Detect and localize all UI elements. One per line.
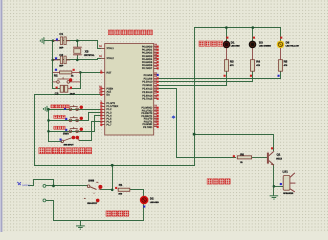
state squares D1 D3 D6 anode red — [226, 37, 228, 39]
wire key row3 — [49, 131, 78, 133]
svg-text:P0.7/AD7: P0.7/AD7 — [142, 67, 153, 70]
svg-text:C2: C2 — [59, 53, 63, 57]
svg-text:C1: C1 — [59, 32, 63, 36]
state square C1 left blue — [56, 38, 58, 40]
key label text row3 复位键 — [54, 126, 65, 129]
wire ground to C1 junction — [45, 40, 53, 42]
state square R3 bottom red — [224, 75, 226, 77]
state square key row3 blue — [65, 129, 67, 131]
svg-text:LED-RED: LED-RED — [231, 44, 240, 47]
wire reset section right vertical — [80, 73, 82, 89]
wire bottom rail — [54, 220, 144, 222]
svg-text:R2: R2 — [54, 73, 58, 77]
switch SW8 — [84, 182, 101, 198]
blue diamond marker — [171, 115, 175, 118]
state square SW0 blue — [60, 139, 62, 141]
wire key row2 staircase to P1.3 — [78, 113, 101, 121]
svg-text:LS1: LS1 — [283, 169, 289, 173]
svg-text:R5: R5 — [284, 60, 288, 64]
junction SW8 output R1 — [111, 189, 114, 192]
wire key row2 — [49, 120, 78, 122]
window left edge bar — [0, 0, 2, 232]
junction crystal bottom — [76, 59, 79, 62]
svg-text:R1: R1 — [119, 183, 123, 187]
svg-text:10uF: 10uF — [70, 93, 76, 96]
svg-text:9013: 9013 — [276, 158, 282, 161]
key button row3 — [69, 127, 78, 133]
wire Q1 emitter down — [273, 165, 275, 196]
label text 电源模块 — [106, 211, 129, 216]
wire R4 bottom to P2.2 — [159, 72, 253, 82]
svg-text:XTAL2: XTAL2 — [107, 57, 115, 60]
svg-text:30P: 30P — [59, 47, 64, 50]
wire C3 right lead to vertical — [72, 88, 81, 90]
chip left pin state squares (red) — [100, 71, 102, 126]
battery plus terminal — [43, 185, 46, 188]
wire XTAL1 drop — [98, 41, 101, 49]
SW0 red actuators — [72, 136, 76, 140]
wire crystal top lead vertical — [77, 41, 79, 47]
junction emitter speaker tap — [273, 185, 276, 188]
title text 单片机最小系统 — [108, 30, 152, 35]
wire P2.4 to alarm base line — [159, 89, 177, 158]
state square C3 right red — [70, 87, 72, 89]
junction power net drop x112 — [111, 164, 114, 167]
capacitor C3 — [60, 85, 72, 92]
ground (key rail, rotated left-pointing) — [43, 106, 48, 112]
junction key rail row3 — [47, 130, 50, 133]
wire crystal bottom lead vertical — [77, 56, 79, 60]
SW8 red actuator top — [98, 185, 102, 189]
svg-text:CRYSTAL: CRYSTAL — [84, 54, 95, 57]
wire SW0 output staircase to P1.6 — [80, 122, 101, 141]
capacitor C2 — [53, 56, 70, 64]
wire second rail C2 to XTAL2 corner — [53, 59, 98, 61]
capacitor C1 — [53, 37, 70, 45]
wire R3 bottom to P2.3 — [159, 72, 227, 86]
speaker LS1 — [283, 173, 295, 192]
junction key rail row1 — [47, 108, 50, 111]
wire LED top rail — [195, 27, 281, 29]
svg-text:D6: D6 — [286, 40, 290, 44]
svg-text:SW-SPDT: SW-SPDT — [64, 144, 75, 147]
state square key row2 blue — [65, 118, 67, 120]
svg-text:R6: R6 — [240, 152, 244, 156]
label text 红外热释电传感器 — [39, 148, 92, 154]
LED D3 — [249, 41, 257, 60]
svg-text:LED-RED: LED-RED — [150, 201, 159, 204]
junction R2 right — [79, 71, 82, 74]
wire Q1 collector feed — [195, 135, 274, 151]
svg-text:R3: R3 — [230, 60, 234, 64]
junction riser collector feed — [193, 133, 196, 136]
svg-text:P1.7: P1.7 — [107, 124, 113, 127]
wire key row3 staircase to P1.4 — [78, 116, 101, 132]
svg-text:LED-GREEN: LED-GREEN — [259, 44, 271, 47]
battery blue marker glyph — [17, 182, 21, 185]
reset button — [53, 77, 81, 83]
key button row1 — [69, 105, 78, 111]
state square R5 bottom blue — [278, 75, 280, 77]
state square R4 bottom red — [250, 75, 252, 77]
key button row2 — [69, 116, 78, 122]
svg-text:EA: EA — [107, 94, 111, 97]
wire C3 left lead to rail — [53, 88, 60, 90]
wire riser LED rail to power net — [194, 28, 196, 166]
wire power net drop to R1 row — [112, 166, 114, 190]
wire SW8 output to R1 junction — [101, 189, 113, 191]
wire R2 to RST — [81, 72, 101, 74]
LED D1 — [223, 41, 231, 60]
MCU U1 body — [105, 44, 154, 136]
key row3 red actuator — [80, 128, 83, 131]
svg-text:D2: D2 — [150, 196, 154, 200]
label text 指示模块 — [199, 41, 223, 46]
junction C1 ground node — [52, 39, 55, 42]
key row1 red actuator — [80, 106, 83, 109]
svg-text:SW0: SW0 — [63, 133, 69, 136]
svg-text:30P: 30P — [59, 65, 64, 68]
state square R2 left blue — [55, 69, 57, 71]
ground (speaker) — [270, 196, 279, 199]
svg-text:LED-YELLOW: LED-YELLOW — [286, 44, 299, 47]
LED D6 (lit yellow) — [277, 41, 285, 60]
state square C2 left blue — [55, 57, 57, 59]
wire D2 cathode to bottom rail — [143, 205, 145, 221]
wire SW0 common from rail — [49, 141, 62, 143]
junction LED rail D3 — [252, 26, 255, 29]
wire D3 anode drop — [252, 28, 254, 41]
svg-text:battery: battery — [22, 184, 30, 187]
junction battery plus — [52, 185, 55, 188]
junction C2 rail — [51, 59, 54, 62]
svg-text:P3.7/RD: P3.7/RD — [143, 126, 152, 129]
wire alarm base line y157 — [177, 157, 236, 159]
svg-text:XTAL1: XTAL1 — [107, 47, 115, 50]
resistor R5 — [279, 60, 283, 71]
resistor R2 — [53, 71, 81, 74]
wire left ground rail x52.5 — [52, 41, 54, 89]
state square D2 bottom blue — [143, 206, 145, 208]
wire EA to power net left vertical — [35, 95, 101, 166]
resistor R1 — [118, 188, 130, 191]
chip right pin state squares — [157, 46, 159, 129]
svg-text:C3: C3 — [55, 92, 59, 96]
junction LED rail D1 — [225, 26, 228, 29]
wire top rail C1 to XTAL1 corner — [53, 40, 98, 42]
state square Q1 collector red — [271, 147, 273, 149]
wire XTAL2 rise — [98, 59, 101, 60]
SW8 red actuator bottom throw — [96, 199, 100, 203]
wire R6 to Q1 base — [252, 157, 267, 159]
state square speaker feed blue — [280, 183, 282, 185]
svg-text:X3: X3 — [85, 50, 89, 54]
junction key rail row2 — [47, 119, 50, 122]
key label text row1 手动报警键 — [51, 105, 69, 108]
svg-text:D3: D3 — [259, 40, 263, 44]
wire D6 anode drop — [280, 28, 282, 41]
wire battery plus to SW8 — [54, 185, 88, 187]
wire bottom ground stem — [80, 221, 82, 226]
wire key rail vertical x48.5 — [48, 109, 50, 142]
state square R6 left red — [233, 155, 235, 157]
wire battery hook — [29, 180, 54, 186]
MCU left pin stubs — [101, 49, 105, 125]
LED D2 (lit red) — [140, 196, 149, 205]
battery minus terminal — [43, 199, 46, 202]
state square C3 left red — [56, 87, 58, 89]
svg-text:SW8: SW8 — [88, 180, 94, 183]
svg-text:RST: RST — [107, 71, 112, 74]
key label text row2 止声键 — [54, 115, 65, 118]
ground (bottom rail) — [76, 226, 85, 229]
resistor R3 — [225, 60, 229, 71]
switch SW0 — [61, 138, 80, 143]
junction crystal top — [76, 39, 79, 42]
state square key row1 blue — [64, 108, 66, 110]
wire R5 bottom to P2.1 — [159, 72, 281, 79]
svg-text:SW-SPDT: SW-SPDT — [87, 202, 98, 205]
wire D1 anode drop — [226, 28, 228, 41]
svg-text:D1: D1 — [231, 40, 235, 44]
crystal X3 — [73, 47, 82, 56]
state square R1 left red — [115, 187, 117, 189]
wire power net horizontal y165 — [35, 165, 195, 167]
wire key row1 to P1.2 — [49, 109, 101, 111]
MCU right pin stubs — [154, 47, 159, 127]
wire R1 to D2 — [130, 190, 144, 197]
svg-text:P2.7/A15: P2.7/A15 — [142, 98, 153, 101]
wire battery plus terminal to junction — [46, 185, 54, 187]
wire battery minus terminal — [46, 201, 54, 221]
wire emitter to speaker — [274, 186, 284, 188]
key row2 red actuator — [80, 117, 83, 120]
transistor Q1 — [267, 151, 274, 165]
ground (top-left, rotated left-pointing) — [40, 37, 44, 44]
svg-text:Q1: Q1 — [277, 152, 281, 156]
svg-text:R4: R4 — [256, 60, 260, 64]
resistor R6 — [237, 156, 251, 159]
resistor R4 — [251, 60, 255, 71]
label text 报警模块 — [207, 179, 230, 184]
svg-text:SPEAKER: SPEAKER — [283, 192, 294, 195]
reset button red actuator — [69, 78, 72, 81]
state square R2 right red — [73, 69, 75, 71]
